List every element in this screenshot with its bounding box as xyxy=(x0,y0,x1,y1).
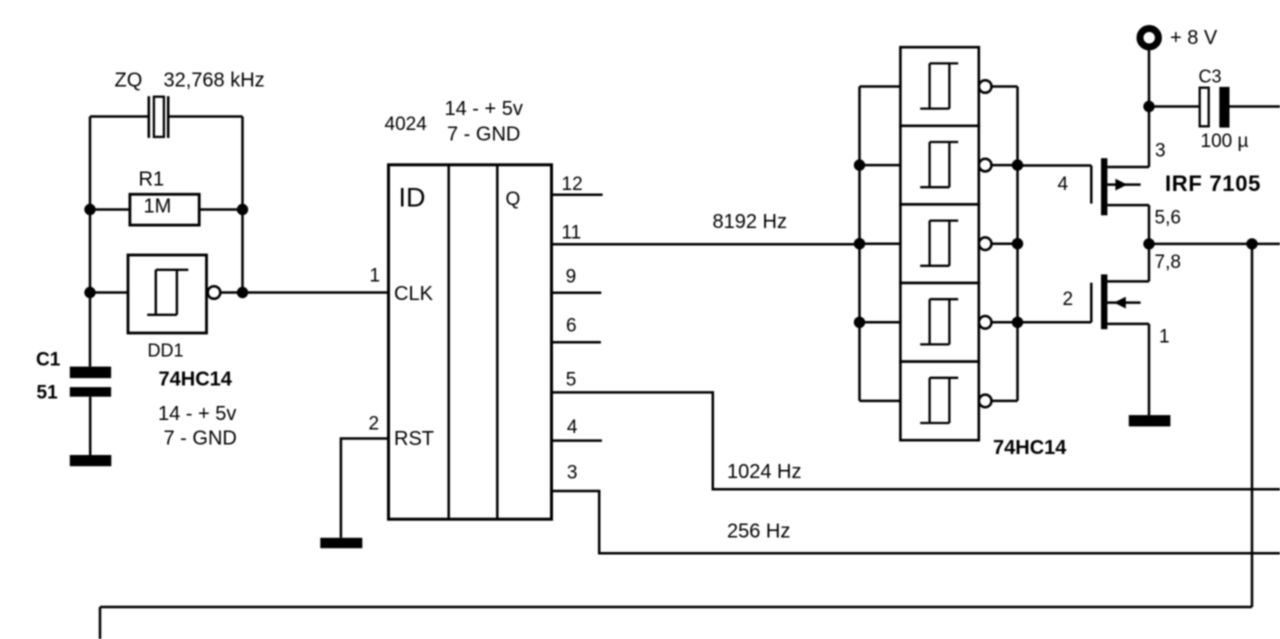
pin number 11 xyxy=(562,223,582,244)
inverter stack box 2 xyxy=(900,126,991,205)
svg-text:4024: 4024 xyxy=(385,114,428,135)
label DD1 xyxy=(148,341,184,361)
label C1 xyxy=(36,350,61,371)
transistor Q1b IRF7105 lower n-channel xyxy=(1091,274,1149,329)
label 7 - GND (top) xyxy=(447,124,520,146)
junction: output bus node 2 xyxy=(1012,159,1023,170)
wire: output bus vertical xyxy=(1016,87,1019,401)
value label 1M xyxy=(144,196,172,218)
pin number 12 xyxy=(562,174,583,195)
svg-text:1: 1 xyxy=(370,266,381,287)
wire: output node to right edge xyxy=(1149,243,1280,246)
wire: input 1 xyxy=(860,85,901,88)
junction: output bus node 3 xyxy=(1012,238,1023,249)
label R1 xyxy=(139,169,165,191)
label 8192 Hz xyxy=(713,211,788,233)
wire: DD1 input lead xyxy=(90,291,128,294)
svg-text:3: 3 xyxy=(567,463,578,484)
inverter stack box 5 xyxy=(900,362,991,441)
svg-text:256 Hz: 256 Hz xyxy=(727,521,790,543)
pin number 5 xyxy=(566,370,577,391)
inverter stack box 3 xyxy=(900,204,991,283)
wire: output 3 xyxy=(990,242,1017,245)
label 14 - + 5v (top) xyxy=(445,98,523,120)
svg-text:74HC14: 74HC14 xyxy=(993,437,1067,459)
wire: upper drain to supply xyxy=(1148,50,1151,167)
junction: DD1 output node xyxy=(237,287,248,298)
svg-text:6: 6 xyxy=(566,315,577,336)
wire: pin 3 / 256 Hz line xyxy=(552,491,1280,553)
svg-text:14 - + 5v: 14 - + 5v xyxy=(158,403,236,425)
label 7 - GND (left) xyxy=(164,428,237,450)
value label 32,768 kHz xyxy=(164,70,265,92)
wire: oscillator loop left vertical xyxy=(89,117,92,367)
svg-text:4: 4 xyxy=(567,417,578,438)
wire: lower source to ground xyxy=(1148,324,1151,415)
ground: RST xyxy=(320,538,362,548)
pin number 3 xyxy=(1155,141,1166,162)
inverter stack box 4 xyxy=(900,283,991,362)
wire: C3 right lead xyxy=(1230,105,1280,108)
svg-text:5,6: 5,6 xyxy=(1155,208,1181,229)
label + 8 V xyxy=(1170,27,1218,49)
pin number 2 (lower gate) xyxy=(1063,289,1074,310)
label 74HC14 (right) xyxy=(993,437,1067,459)
junction: R1 left node xyxy=(84,204,95,215)
svg-text:2: 2 xyxy=(1063,289,1074,310)
label ZQ xyxy=(115,70,143,92)
label 4024 xyxy=(385,114,428,135)
pin number 6 xyxy=(566,315,577,336)
label IRF 7105 xyxy=(1165,171,1261,196)
wire: input 4 xyxy=(860,321,901,324)
svg-text:IRF 7105: IRF 7105 xyxy=(1165,171,1261,196)
ground: lower MOSFET source xyxy=(1129,415,1171,426)
svg-text:2: 2 xyxy=(369,414,380,435)
capacitor C1 xyxy=(70,367,111,397)
power terminal +8V xyxy=(1140,29,1158,47)
value label 51 xyxy=(37,383,59,404)
svg-text:7 - GND: 7 - GND xyxy=(164,428,237,450)
wire: input 5 xyxy=(860,400,901,403)
svg-text:32,768 kHz: 32,768 kHz xyxy=(164,70,265,92)
svg-text:7 - GND: 7 - GND xyxy=(447,124,520,146)
wire: lower drain to node xyxy=(1148,244,1151,282)
label 14 - + 5v (left) xyxy=(158,403,236,425)
svg-text:CLK: CLK xyxy=(394,283,434,305)
svg-text:C3: C3 xyxy=(1199,67,1222,87)
svg-text:1: 1 xyxy=(1159,327,1170,348)
crystal ZQ xyxy=(149,96,168,138)
junction: output bus node 4 xyxy=(1012,317,1023,328)
wire: pin 11 / 8192 Hz line xyxy=(552,243,860,246)
pin number 2 xyxy=(369,414,380,435)
svg-text:14 - + 5v: 14 - + 5v xyxy=(445,98,523,120)
wire: feedback left vertical xyxy=(99,607,102,639)
IC DD2 4024 counter box xyxy=(389,165,552,519)
wire: output 2 xyxy=(990,164,1017,167)
wire: pin 9 stub xyxy=(552,292,602,295)
wire: feedback right vertical xyxy=(1251,244,1254,607)
pin number 7,8 xyxy=(1155,252,1181,273)
wire: lower gate wire xyxy=(1018,321,1092,324)
label 256 Hz xyxy=(727,521,790,543)
label C3 xyxy=(1199,67,1222,87)
svg-text:4: 4 xyxy=(1058,174,1069,195)
pin number 5,6 xyxy=(1155,208,1181,229)
wire: crystal top right horizontal xyxy=(169,115,243,118)
wire: input bus vertical xyxy=(858,87,861,401)
svg-text:R1: R1 xyxy=(139,169,165,191)
inverter DD1 (74HC14 schmitt trigger) xyxy=(128,255,220,333)
svg-text:3: 3 xyxy=(1155,141,1166,162)
label ID xyxy=(399,183,426,213)
svg-text:1M: 1M xyxy=(144,196,172,218)
pin label CLK xyxy=(394,283,434,305)
svg-text:RST: RST xyxy=(394,428,434,450)
wire: pin 5 / 1024 Hz line xyxy=(552,392,1280,489)
wire: oscillator loop right vertical xyxy=(241,117,244,293)
wire: to C3 xyxy=(1149,105,1199,108)
svg-text:+ 8 V: + 8 V xyxy=(1170,27,1218,49)
wire: pin 4 stub xyxy=(552,439,602,442)
svg-text:100 µ: 100 µ xyxy=(1201,131,1249,152)
junction: feedback tap xyxy=(1246,238,1257,249)
capacitor C3 xyxy=(1200,87,1230,128)
pin number 1 (lower source) xyxy=(1159,327,1170,348)
svg-text:7,8: 7,8 xyxy=(1155,252,1181,273)
junction: R1 right node xyxy=(237,204,248,215)
pin label RST xyxy=(394,428,434,450)
wire: feedback bottom horizontal xyxy=(100,606,1252,609)
wire: input 3 xyxy=(860,242,901,245)
wire: R1 right lead xyxy=(199,208,242,211)
pin number 1 xyxy=(370,266,381,287)
inverter stack box 1 xyxy=(900,47,991,126)
svg-text:ZQ: ZQ xyxy=(115,70,143,92)
pin number 9 xyxy=(566,267,577,288)
svg-text:5: 5 xyxy=(566,370,577,391)
wire: upper source to node xyxy=(1148,205,1151,244)
pin number 4 (upper gate) xyxy=(1058,174,1069,195)
label 1024 Hz xyxy=(727,461,802,483)
svg-text:74HC14: 74HC14 xyxy=(159,369,233,391)
pin number 4 xyxy=(567,417,578,438)
svg-text:DD1: DD1 xyxy=(148,341,184,361)
svg-text:1024 Hz: 1024 Hz xyxy=(727,461,802,483)
wire: output 1 xyxy=(990,85,1017,88)
pin number 3 xyxy=(567,463,578,484)
wire: crystal top left horizontal xyxy=(90,115,148,118)
ground: below C1 xyxy=(70,455,112,466)
junction: input bus node 2 xyxy=(854,159,865,170)
junction: input bus node 4 xyxy=(854,317,865,328)
wire: DD1 output to CLK xyxy=(220,291,388,294)
wire: pin 12 stub xyxy=(552,193,603,196)
junction: input bus node 3 xyxy=(854,238,865,249)
wire: RST to ground xyxy=(341,439,389,538)
wire: input 2 xyxy=(860,164,901,167)
wire: upper gate wire xyxy=(1018,164,1092,167)
svg-text:12: 12 xyxy=(562,174,583,195)
wire: R1 left lead xyxy=(90,208,130,211)
value label 100 µ xyxy=(1201,131,1249,152)
svg-text:ID: ID xyxy=(399,183,426,213)
junction: C3 tap xyxy=(1143,101,1154,112)
wire: pin 6 stub xyxy=(552,341,601,344)
wire: output 5 xyxy=(990,400,1017,403)
svg-text:Q: Q xyxy=(506,189,521,210)
transistor Q1a IRF7105 upper p-channel xyxy=(1091,158,1149,215)
svg-text:C1: C1 xyxy=(36,350,61,371)
resistor R1 xyxy=(130,194,199,225)
wire: output 4 xyxy=(990,321,1017,324)
junction: DD1 input node xyxy=(84,287,95,298)
svg-text:8192 Hz: 8192 Hz xyxy=(713,211,788,233)
svg-text:11: 11 xyxy=(562,223,582,244)
wire: C1 to ground xyxy=(89,397,92,455)
label Q xyxy=(506,189,521,210)
label 74HC14 (left) xyxy=(159,369,233,391)
junction: output node xyxy=(1143,238,1154,249)
svg-text:51: 51 xyxy=(37,383,59,404)
svg-text:9: 9 xyxy=(566,267,577,288)
